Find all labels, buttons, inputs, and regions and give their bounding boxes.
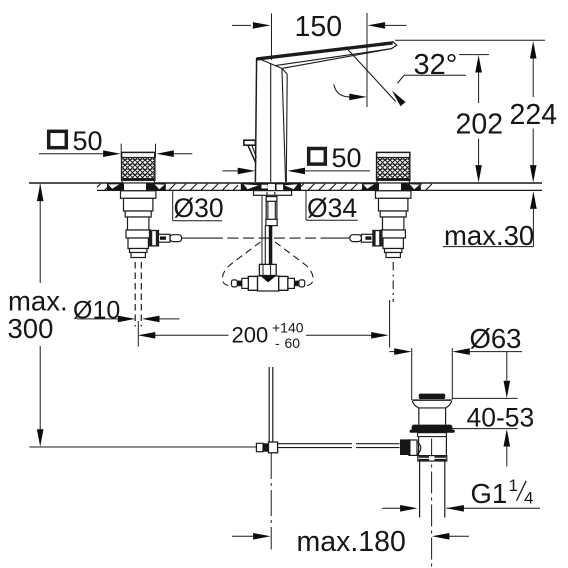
svg-text:200: 200: [232, 323, 269, 348]
svg-text:60: 60: [285, 335, 301, 351]
svg-text:G1: G1: [471, 478, 508, 509]
svg-text:4: 4: [524, 489, 533, 508]
svg-text:max.30: max.30: [444, 220, 534, 251]
svg-text:Ø34: Ø34: [307, 193, 357, 223]
svg-text:202: 202: [456, 109, 504, 141]
svg-text:150: 150: [295, 11, 343, 43]
svg-text:224: 224: [510, 99, 558, 131]
svg-text:Ø10: Ø10: [73, 297, 120, 325]
svg-text:-: -: [275, 335, 280, 351]
svg-text:+140: +140: [272, 320, 304, 336]
svg-text:300: 300: [8, 313, 54, 344]
svg-text:32°: 32°: [414, 49, 458, 81]
svg-text:40-53: 40-53: [467, 403, 535, 433]
svg-text:50: 50: [332, 143, 362, 173]
svg-text:Ø30: Ø30: [174, 193, 224, 223]
svg-text:50: 50: [73, 126, 103, 156]
svg-text:Ø63: Ø63: [470, 323, 522, 354]
svg-text:max.: max.: [8, 285, 68, 316]
svg-text:1: 1: [509, 476, 518, 495]
svg-text:max.180: max.180: [297, 526, 406, 558]
